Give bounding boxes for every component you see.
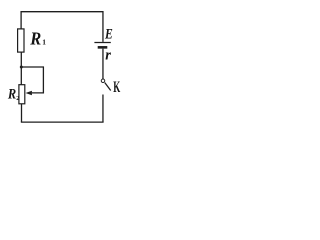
wiper arrowhead	[26, 91, 32, 96]
label K	[113, 79, 120, 96]
wire: switch to bottom corner	[102, 95, 104, 123]
switch K blade	[105, 83, 111, 91]
wire: bottom	[21, 121, 104, 123]
resistor R1	[18, 29, 24, 52]
label R2	[7, 87, 19, 103]
switch K pivot circle	[101, 79, 105, 83]
junction node (wiper branch tap)	[20, 66, 23, 69]
svg-text:r: r	[105, 48, 111, 64]
wire: wiper branch (right, down to arrow tail)	[21, 67, 43, 93]
label R1	[29, 28, 46, 48]
rheostat R2 body	[19, 85, 25, 104]
wire: R2 bottom lead	[21, 104, 23, 122]
wire: top loop (R1 top lead, top wire, battery top lead)	[21, 12, 103, 42]
svg-text:R: R	[29, 28, 41, 48]
battery E negative plate	[98, 46, 108, 49]
wire: R1 bottom to R2 top	[20, 52, 22, 85]
svg-text:2: 2	[16, 95, 19, 102]
svg-text:E: E	[104, 27, 113, 43]
svg-text:K: K	[113, 79, 120, 96]
svg-text:1: 1	[42, 38, 46, 47]
label r	[105, 48, 111, 64]
svg-text:R: R	[7, 87, 16, 103]
wire: battery to switch	[102, 49, 104, 79]
label E	[104, 27, 113, 43]
battery E positive plate	[94, 42, 110, 44]
